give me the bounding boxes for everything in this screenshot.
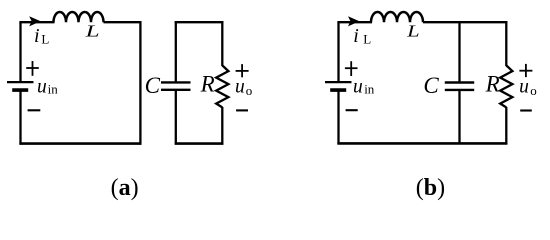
svg-text:in: in xyxy=(48,82,59,97)
svg-text:u: u xyxy=(519,77,529,98)
svg-text:C: C xyxy=(423,73,439,98)
wire: loop2 top xyxy=(175,21,224,23)
svg-text:R: R xyxy=(200,72,215,97)
wire: loop1 top right segment xyxy=(104,21,142,23)
wire: loop1 left vertical upper xyxy=(19,22,21,81)
inductor L1 coil xyxy=(53,12,103,22)
wire: bottom xyxy=(337,142,507,145)
wire: right vertical lower xyxy=(505,107,507,144)
svg-text:i: i xyxy=(353,25,359,47)
wire: left vertical upper xyxy=(337,22,339,81)
svg-text:C: C xyxy=(145,73,161,98)
output plus label xyxy=(236,64,249,77)
battery B1 plus label xyxy=(26,61,39,76)
output minus label xyxy=(236,109,248,111)
resistor R zigzag (b) xyxy=(500,65,512,107)
battery B2 plus label xyxy=(345,61,358,76)
wire: capacitor branch lower xyxy=(458,90,460,144)
wire: capacitor branch upper xyxy=(458,22,460,82)
arrow i_L direction (b) xyxy=(348,16,359,26)
svg-text:L: L xyxy=(363,31,371,46)
inductor L2 coil xyxy=(371,12,423,22)
wire: loop1 top left segment xyxy=(19,21,54,23)
capacitor C bottom plate (b) xyxy=(445,89,474,91)
battery B1 minus label xyxy=(28,109,41,111)
capacitor C top plate (b) xyxy=(445,81,474,83)
wire: loop1 right vertical xyxy=(139,21,141,145)
wire: loop1 bottom xyxy=(19,142,141,145)
svg-text:u: u xyxy=(353,76,363,97)
svg-text:o: o xyxy=(246,83,253,98)
wire: loop2 right vertical lower xyxy=(221,107,223,145)
wire: loop1 left vertical lower xyxy=(19,90,21,145)
battery B1 long plate xyxy=(7,81,34,83)
output minus label (b) xyxy=(520,109,532,111)
arrow i_L direction xyxy=(29,16,40,26)
svg-text:i: i xyxy=(34,25,40,47)
resistor R zigzag xyxy=(216,65,228,107)
svg-text:R: R xyxy=(485,72,500,97)
svg-text:(b): (b) xyxy=(416,175,445,201)
wire: loop2 right vertical upper xyxy=(221,21,223,66)
svg-text:L: L xyxy=(84,22,100,41)
svg-text:o: o xyxy=(530,83,537,98)
svg-text:u: u xyxy=(235,77,245,98)
battery B2 short plate xyxy=(330,88,346,92)
battery B2 long plate xyxy=(325,81,352,83)
svg-text:in: in xyxy=(364,82,375,97)
svg-text:u: u xyxy=(37,76,47,97)
capacitor C bottom plate xyxy=(161,89,191,91)
wire: right vertical upper xyxy=(505,21,507,66)
svg-text:(a): (a) xyxy=(111,175,139,201)
svg-text:L: L xyxy=(406,22,420,41)
wire: left vertical lower xyxy=(337,90,339,144)
output plus label (b) xyxy=(519,64,532,77)
wire: top right segment xyxy=(423,21,507,23)
battery B1 short plate xyxy=(12,88,28,92)
wire: top left segment xyxy=(337,21,372,23)
battery B2 minus label xyxy=(346,109,358,111)
capacitor C top plate xyxy=(161,81,191,83)
wire: loop2 bottom xyxy=(175,142,224,145)
wire: loop2 left vertical upper xyxy=(175,21,177,82)
svg-text:L: L xyxy=(41,31,49,46)
wire: loop2 left vertical lower xyxy=(175,90,177,145)
